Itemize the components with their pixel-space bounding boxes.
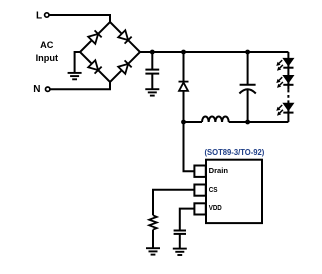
wire R1 to ground: [152, 230, 154, 248]
wire LED3 to return: [287, 103, 289, 122]
bridge diode D2: [118, 30, 131, 43]
wire VDD to C3: [180, 209, 195, 231]
LED2 arrows: [276, 77, 282, 83]
bridge diode D4: [118, 60, 131, 73]
node switch: [181, 120, 186, 125]
wire drain: [184, 122, 195, 171]
svg-text:AC: AC: [40, 40, 54, 50]
wire rail to LED string: [287, 52, 289, 90]
bridge diode D3: [88, 60, 101, 73]
node rail-D5: [181, 50, 186, 55]
svg-text:(SOT89-3/TO-92): (SOT89-3/TO-92): [205, 147, 265, 157]
wire C2 bottom: [247, 90, 249, 122]
wire switch node: [184, 121, 203, 123]
wire DC rail: [140, 51, 288, 53]
svg-text:Input: Input: [36, 53, 58, 63]
LED1 arrows: [276, 60, 282, 66]
wire bridge negative to ground: [75, 52, 80, 73]
wire LED dashed continuation: [287, 90, 289, 104]
ground C3: [173, 249, 187, 255]
svg-text:N: N: [33, 84, 40, 95]
ground bridge: [68, 73, 82, 79]
wire D5 anode: [183, 91, 185, 122]
wire C1 top: [151, 52, 153, 69]
ground R1: [146, 248, 160, 254]
wire C3 to ground: [179, 234, 181, 248]
capacitor C1: [145, 70, 159, 74]
capacitor C3: [174, 231, 186, 234]
wire inductor to LED return: [229, 121, 289, 123]
resistor R1: [149, 215, 157, 229]
svg-text:Drain: Drain: [209, 166, 229, 175]
wire D5 cathode: [183, 52, 185, 81]
LED1: [283, 58, 293, 67]
IC U1 body: [206, 160, 262, 223]
diode D5 freewheel: [179, 82, 189, 91]
pin tab Drain: [194, 166, 205, 177]
wire L to bridge top: [49, 15, 110, 22]
wire CS to R1: [153, 190, 194, 216]
wire N to bridge bottom: [50, 82, 110, 89]
capacitor C2 polarized: [239, 85, 255, 94]
svg-text:CS: CS: [209, 185, 218, 194]
LED2: [283, 76, 293, 85]
node rail-C2: [245, 50, 250, 55]
LED3 arrows: [276, 105, 282, 111]
svg-text:L: L: [36, 11, 42, 22]
inductor L1: [202, 117, 229, 123]
svg-text:VDD: VDD: [209, 203, 223, 212]
ground C1: [145, 89, 159, 95]
terminal N: [46, 87, 50, 91]
node rail-C1: [150, 50, 155, 55]
wire C1 bottom: [151, 74, 153, 89]
terminal L: [45, 13, 49, 17]
pin tab VDD: [194, 203, 205, 214]
node C2 bottom: [245, 120, 250, 125]
LED3: [283, 103, 293, 112]
pin tab CS: [194, 185, 205, 196]
bridge diamond wires: [80, 22, 140, 82]
wire C2 top: [247, 52, 249, 85]
bridge diode D1: [88, 30, 101, 43]
